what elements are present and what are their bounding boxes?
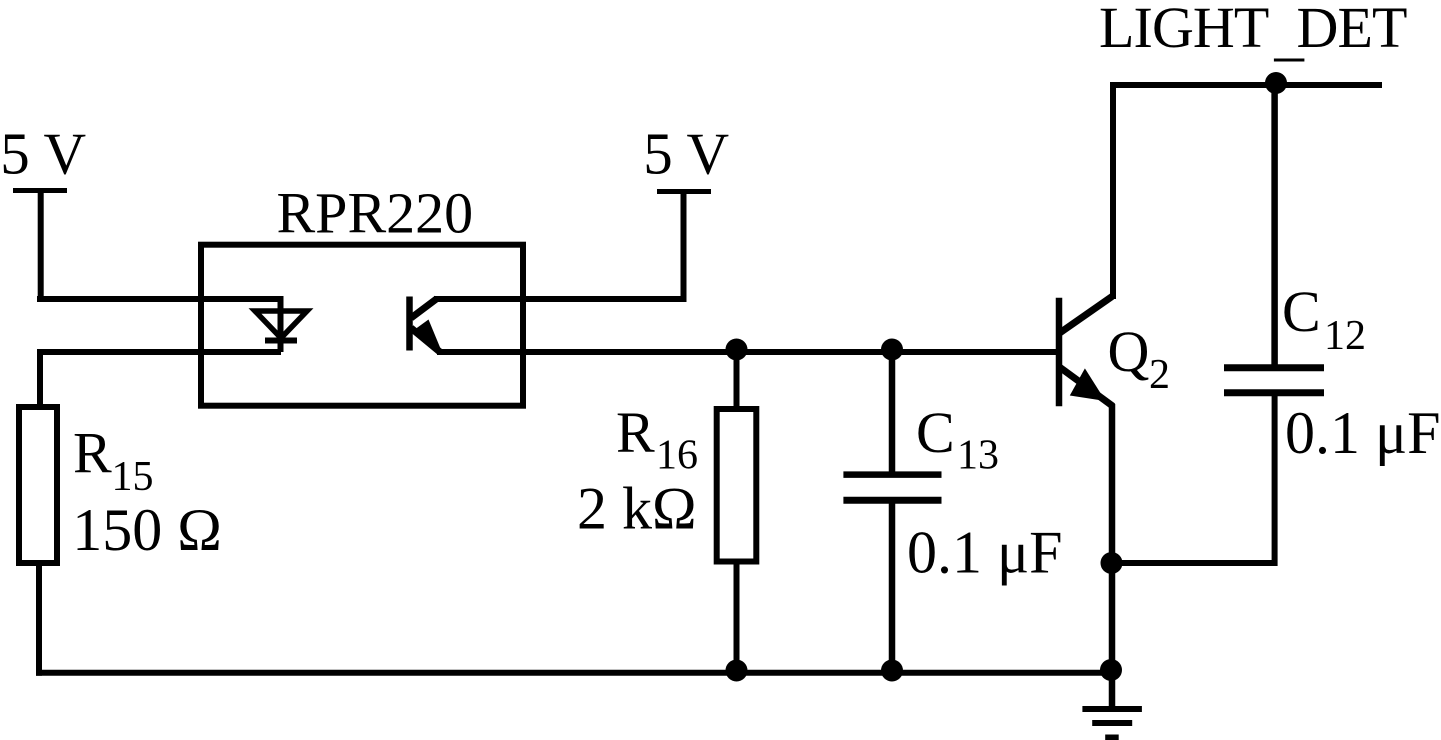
optocoupler U RPR220 box <box>201 245 523 406</box>
node junction dot emitter / C12 <box>1101 552 1123 574</box>
svg-text:0.1 μF: 0.1 μF <box>1285 400 1441 466</box>
node junction dot C13 bottom <box>881 660 903 682</box>
resistor R16 <box>717 409 757 562</box>
resistor R15 <box>19 407 57 563</box>
ground symbol <box>1082 709 1142 738</box>
wire Q2 emitter down to ground <box>1109 404 1116 706</box>
transistor Q2 <box>1059 297 1113 407</box>
capacitor C12 <box>1224 368 1324 393</box>
wire C13 top lead <box>889 352 896 475</box>
svg-text:5 V: 5 V <box>643 120 729 186</box>
LED D1 (emitter diode inside RPR220) <box>255 296 307 352</box>
power +5V left bar <box>13 188 67 193</box>
capacitor C13 <box>843 475 941 501</box>
svg-text:2 kΩ: 2 kΩ <box>577 475 697 541</box>
svg-text:LIGHT_DET: LIGHT_DET <box>1099 0 1407 60</box>
svg-text:RPR220: RPR220 <box>277 180 474 245</box>
svg-text:Q: Q <box>1108 319 1150 384</box>
node junction dot C13 top <box>881 339 903 361</box>
wire R16 top stem <box>734 352 740 410</box>
node junction dot LIGHT_DET <box>1265 72 1287 94</box>
power +5V right bar <box>657 189 711 194</box>
power +5V left stem wire <box>38 191 44 300</box>
node junction dot ground bus <box>1100 659 1122 681</box>
wire C13 bottom lead <box>889 500 896 673</box>
svg-text:R: R <box>616 400 655 465</box>
wire cathode (LED cathode to R15 top) <box>40 352 281 407</box>
svg-text:R: R <box>73 421 112 486</box>
wire emitter net (to R16, C13, Q2 base) <box>437 349 1057 355</box>
phototransistor (inside RPR220) <box>410 297 441 353</box>
node junction dot R16 bottom <box>726 660 748 682</box>
wire ground bus bottom <box>36 670 1112 676</box>
wire anode (5V left to LED anode) <box>37 296 281 302</box>
svg-text:150 Ω: 150 Ω <box>72 497 222 563</box>
svg-text:2: 2 <box>1149 352 1170 398</box>
svg-text:15: 15 <box>112 454 154 500</box>
wire C12 bottom lead <box>1112 393 1275 563</box>
svg-text:5 V: 5 V <box>0 120 86 186</box>
svg-text:12: 12 <box>1324 313 1366 359</box>
node junction dot R16 top <box>726 339 748 361</box>
wire collector to 5V right <box>434 190 684 299</box>
wire C12 top lead <box>1271 84 1278 367</box>
wire R16 bottom stem <box>734 559 740 673</box>
svg-text:C: C <box>916 400 955 465</box>
svg-text:0.1 μF: 0.1 μF <box>907 520 1063 586</box>
wire Q2 collector up to LIGHT_DET <box>1113 85 1382 299</box>
svg-text:16: 16 <box>656 433 698 479</box>
svg-text:C: C <box>1282 279 1321 344</box>
wire R15 bottom <box>36 563 42 676</box>
svg-text:13: 13 <box>957 432 999 478</box>
